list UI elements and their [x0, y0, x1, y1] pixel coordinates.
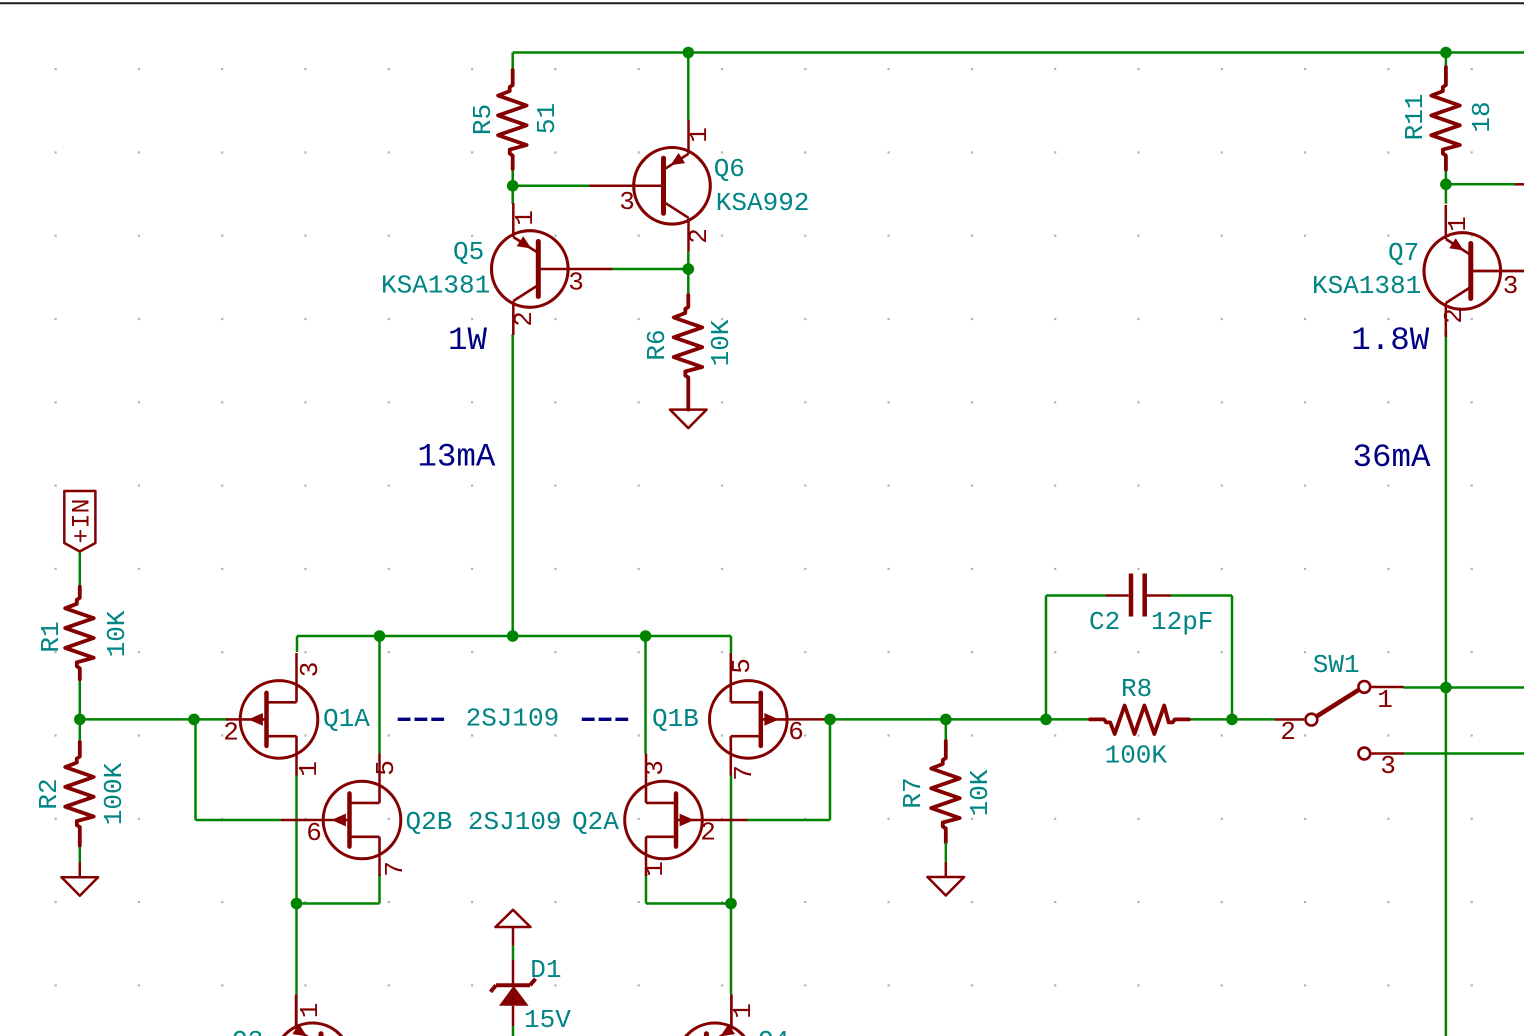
svg-text:1: 1 — [684, 127, 714, 143]
svg-text:15V: 15V — [524, 1005, 571, 1035]
svg-text:R1: R1 — [36, 621, 66, 652]
svg-text:1.8W: 1.8W — [1351, 322, 1430, 359]
svg-text:R2: R2 — [34, 778, 64, 809]
svg-text:100K: 100K — [99, 762, 129, 825]
svg-text:1W: 1W — [448, 322, 488, 359]
svg-text:KSA1381: KSA1381 — [381, 270, 490, 300]
svg-text:1: 1 — [728, 1003, 758, 1019]
svg-text:Q6: Q6 — [714, 154, 745, 184]
svg-text:18: 18 — [1467, 101, 1497, 132]
svg-text:13mA: 13mA — [417, 438, 496, 475]
svg-text:1: 1 — [510, 210, 540, 226]
svg-text:Q2A: Q2A — [572, 807, 619, 837]
svg-text:3: 3 — [1380, 751, 1396, 781]
svg-text:7: 7 — [380, 861, 410, 877]
svg-text:R6: R6 — [642, 329, 672, 360]
svg-text:R5: R5 — [468, 104, 498, 135]
svg-text:Q4: Q4 — [758, 1026, 789, 1036]
svg-text:100K: 100K — [1105, 741, 1168, 771]
svg-text:2: 2 — [684, 228, 714, 244]
svg-text:36mA: 36mA — [1353, 439, 1432, 476]
svg-text:6: 6 — [788, 717, 804, 747]
svg-text:R7: R7 — [898, 777, 928, 808]
svg-text:3: 3 — [1503, 271, 1519, 301]
svg-text:51: 51 — [532, 103, 562, 134]
svg-text:SW1: SW1 — [1313, 650, 1360, 680]
svg-text:10K: 10K — [706, 319, 736, 366]
svg-text:12pF: 12pF — [1151, 607, 1213, 637]
svg-text:10K: 10K — [965, 769, 995, 816]
svg-text:5: 5 — [727, 658, 757, 674]
svg-text:5: 5 — [371, 760, 401, 776]
svg-text:3: 3 — [640, 760, 670, 776]
svg-text:C2: C2 — [1089, 607, 1120, 637]
svg-text:1: 1 — [1377, 685, 1393, 715]
svg-text:2: 2 — [1280, 717, 1296, 747]
svg-text:2: 2 — [700, 817, 716, 847]
svg-text:D1: D1 — [530, 955, 561, 985]
svg-text:3: 3 — [295, 662, 325, 678]
svg-text:7: 7 — [729, 765, 759, 781]
svg-text:6: 6 — [306, 818, 322, 848]
svg-text:2: 2 — [1439, 308, 1469, 324]
svg-text:3: 3 — [568, 267, 584, 297]
svg-text:KSA992: KSA992 — [716, 188, 810, 218]
svg-text:2: 2 — [509, 311, 539, 327]
svg-text:2: 2 — [223, 717, 239, 747]
svg-text:1: 1 — [1443, 216, 1473, 232]
svg-text:Q1B: Q1B — [652, 704, 699, 734]
svg-text:1: 1 — [640, 861, 670, 877]
svg-text:2SJ109: 2SJ109 — [466, 704, 560, 734]
svg-text:R11: R11 — [1400, 94, 1430, 141]
svg-text:KSA1381: KSA1381 — [1312, 271, 1421, 301]
svg-text:10K: 10K — [102, 610, 132, 657]
svg-text:1: 1 — [294, 761, 324, 777]
svg-text:Q7: Q7 — [1388, 238, 1419, 268]
svg-text:Q1A: Q1A — [323, 704, 370, 734]
svg-text:3: 3 — [619, 187, 635, 217]
svg-text:Q5: Q5 — [453, 237, 484, 267]
svg-text:Q2B 2SJ109: Q2B 2SJ109 — [406, 807, 562, 837]
svg-text:R8: R8 — [1121, 674, 1152, 704]
svg-text:1: 1 — [295, 1003, 325, 1019]
svg-text:+IN: +IN — [67, 498, 96, 543]
svg-text:Q3: Q3 — [232, 1026, 263, 1036]
